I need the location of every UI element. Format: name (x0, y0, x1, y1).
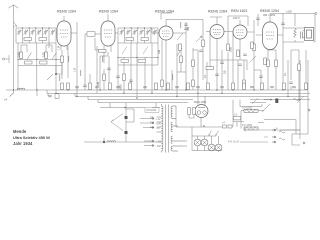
svg-text:100 V: 100 V (233, 16, 240, 20)
svg-text:Jahr 1934: Jahr 1934 (13, 141, 33, 146)
svg-text:a: a (276, 127, 278, 130)
svg-text:RENS 1264: RENS 1264 (155, 10, 174, 14)
svg-text:0,02: 0,02 (18, 52, 21, 57)
svg-text:REN 1821: REN 1821 (231, 9, 248, 13)
svg-text:RENS 1254: RENS 1254 (260, 9, 279, 13)
svg-text:RENS 1264: RENS 1264 (208, 10, 227, 14)
svg-text:1 M: 1 M (58, 46, 61, 50)
svg-text:0,1=1500: 0,1=1500 (242, 124, 253, 127)
svg-text:1 M: 1 M (74, 68, 77, 72)
svg-text:0,5: 0,5 (224, 70, 227, 74)
svg-text:+100: +100 (156, 123, 162, 126)
svg-text:5000: 5000 (120, 84, 123, 90)
svg-text:0,5=1000: 0,5=1000 (146, 109, 157, 112)
svg-text:+ 2W: + 2W (156, 141, 162, 144)
svg-text:Ultra Selektiv 450 W: Ultra Selektiv 450 W (13, 135, 50, 140)
svg-text:- 4V: - 4V (156, 127, 161, 130)
svg-text:0,05: 0,05 (230, 47, 233, 52)
svg-text:+A: +A (4, 98, 8, 102)
svg-text:+250: +250 (286, 10, 292, 14)
svg-text:0,3: 0,3 (234, 114, 238, 117)
svg-text:RENS 1264: RENS 1264 (57, 10, 76, 14)
svg-text:- 2W: - 2W (156, 145, 162, 148)
svg-text:RGN 1054: RGN 1054 (194, 100, 207, 104)
svg-text:4 V, 0,1 A: 4 V, 0,1 A (228, 140, 239, 144)
svg-text:0,02: 0,02 (43, 52, 46, 57)
svg-text:RENS 1264: RENS 1264 (99, 10, 118, 14)
svg-text:0,1: 0,1 (284, 72, 287, 76)
svg-text:100: 100 (158, 49, 161, 54)
svg-text:0,1=1500: 0,1=1500 (242, 106, 253, 109)
svg-text:100: 100 (187, 26, 190, 31)
svg-text:0,1: 0,1 (204, 74, 207, 78)
svg-text:+4: +4 (222, 122, 225, 125)
svg-text:Mende: Mende (13, 129, 27, 134)
svg-text:364 / 1254: 364 / 1254 (263, 13, 276, 17)
svg-text:100: 100 (97, 81, 100, 86)
svg-text:+ 4V: + 4V (156, 118, 161, 121)
